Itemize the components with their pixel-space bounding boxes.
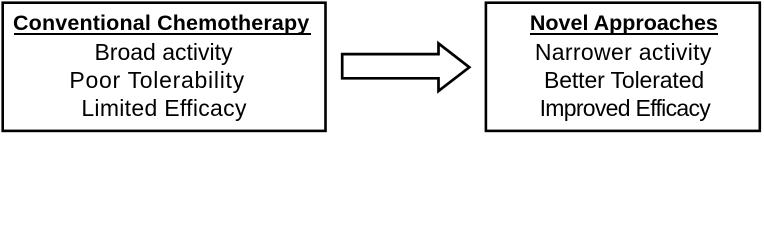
left box title bbox=[0, 10, 324, 36]
right box text line 3 bbox=[487, 94, 764, 122]
right box text line 1 bbox=[485, 38, 762, 66]
left box: Conventional Chemotherapy bbox=[3, 3, 326, 131]
right title underline bbox=[530, 33, 718, 35]
left box text line 3 bbox=[2, 94, 327, 122]
left box text line 2 bbox=[0, 66, 320, 94]
right box title bbox=[486, 10, 763, 36]
block arrow bbox=[342, 43, 469, 91]
left box text line 1 bbox=[1, 38, 326, 66]
right box: Novel Approaches bbox=[486, 3, 760, 131]
left title underline bbox=[14, 33, 311, 35]
right box text line 2 bbox=[486, 66, 763, 94]
